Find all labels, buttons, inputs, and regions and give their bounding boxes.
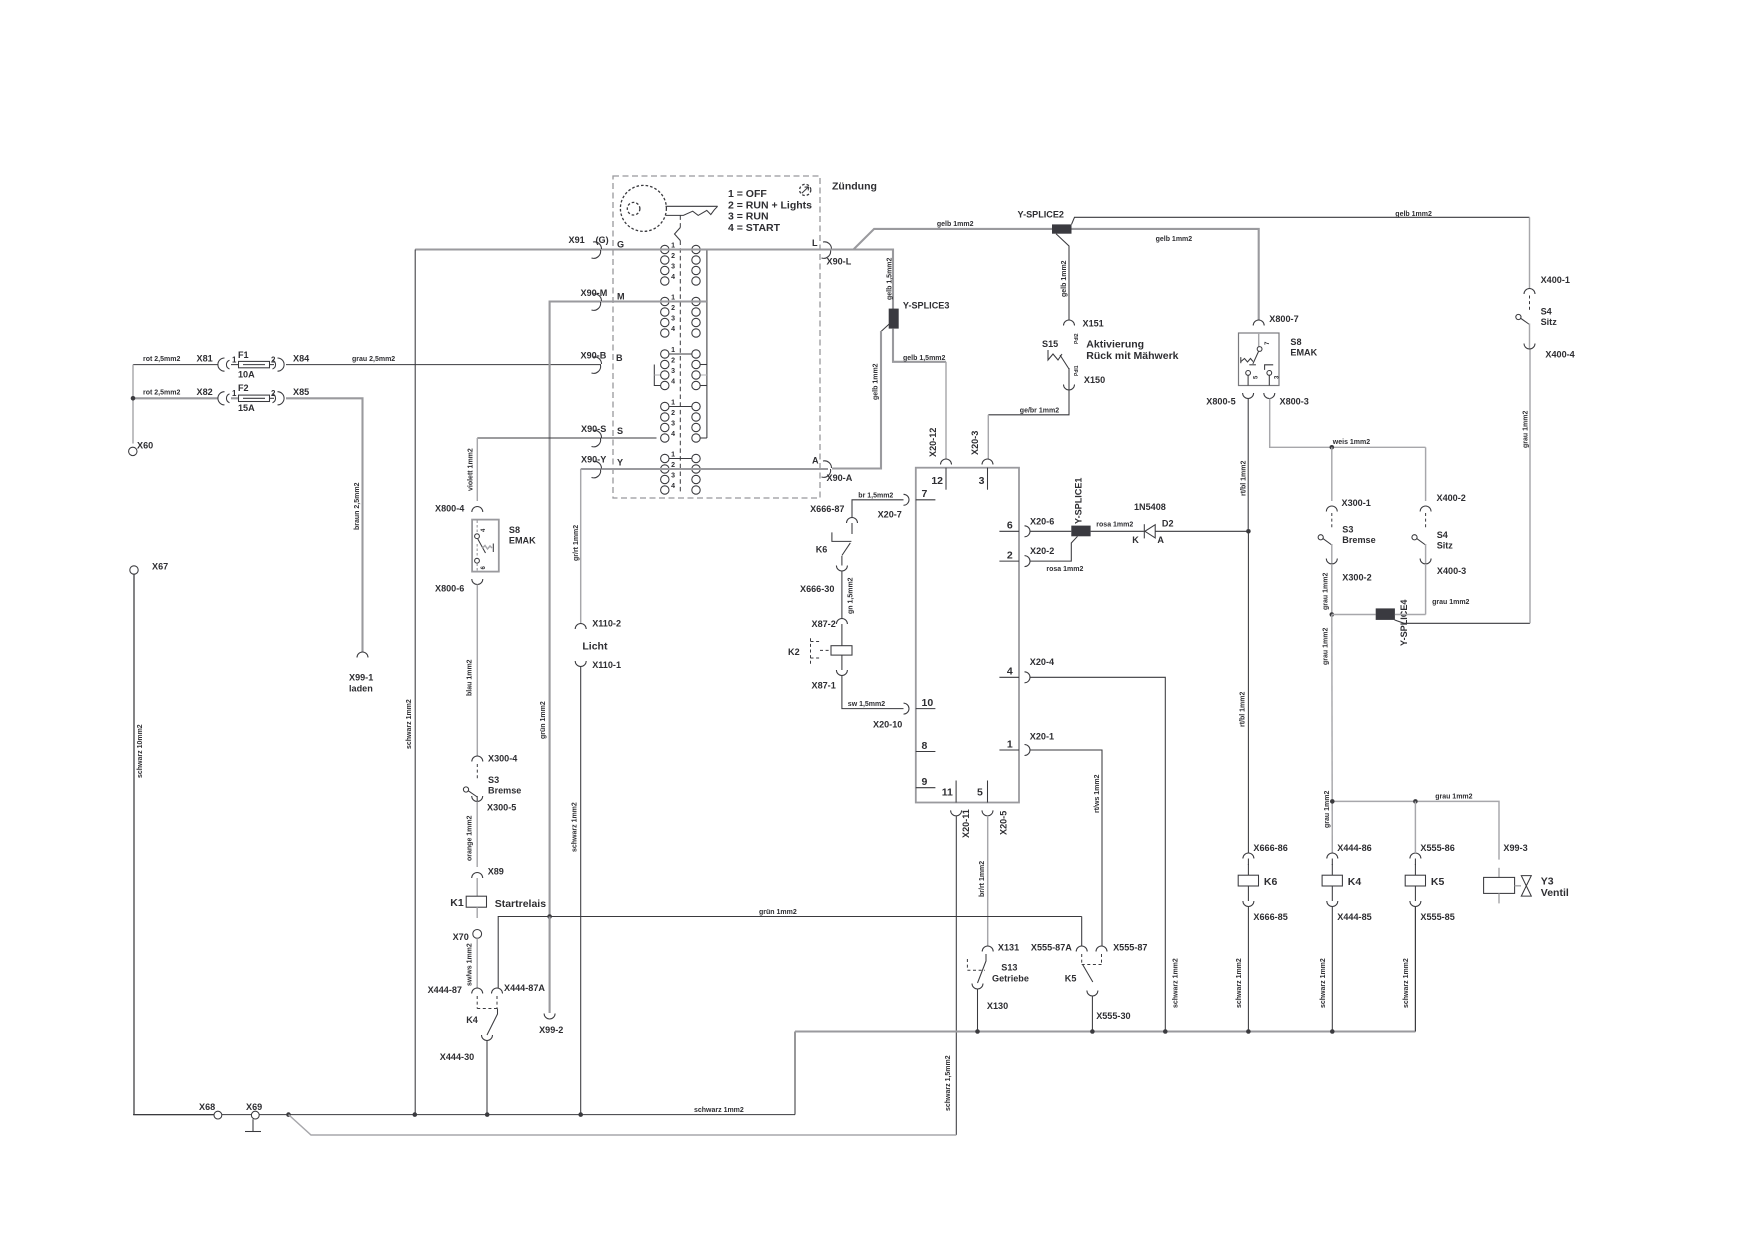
wire Y row <box>581 468 828 470</box>
wire braun 2,5mm2 to X99-1 <box>286 398 363 652</box>
svg-text:X20-11: X20-11 <box>961 809 971 838</box>
svg-text:rot 2,5mm2: rot 2,5mm2 <box>143 390 180 397</box>
connector X300-1 <box>1326 506 1337 512</box>
connector X99-1 laden <box>357 652 368 658</box>
pin 9 <box>916 787 936 789</box>
connector X90-Y <box>593 461 602 468</box>
svg-text:orange 1mm2: orange 1mm2 <box>467 815 474 861</box>
svg-text:4 = START: 4 = START <box>728 222 781 234</box>
svg-text:K: K <box>1132 535 1139 545</box>
svg-text:3: 3 <box>671 421 675 428</box>
svg-text:braun 2,5mm2: braun 2,5mm2 <box>354 482 361 530</box>
svg-text:Sitz: Sitz <box>1437 541 1454 551</box>
wire to X300-1 <box>1331 447 1333 501</box>
wire rosa 1mm2 (X20-2 to Y-SPLICE1) <box>1030 536 1078 561</box>
svg-text:9: 9 <box>922 776 928 788</box>
connector X400-1 <box>1524 289 1535 295</box>
svg-text:5: 5 <box>977 786 983 798</box>
svg-text:Sitz: Sitz <box>1541 317 1558 327</box>
wire schwarz 10mm2 (X67 to ground bus) <box>134 575 214 1115</box>
connector X400-2 <box>1420 506 1431 512</box>
diode D2 1N5408 <box>1143 524 1145 538</box>
connector X85 <box>278 392 285 405</box>
svg-text:X400-4: X400-4 <box>1545 350 1575 360</box>
svg-text:1N5408: 1N5408 <box>1134 502 1166 512</box>
wire X20-4 to bus (schwarz 1mm2) <box>1030 677 1165 1031</box>
junction <box>547 914 552 919</box>
svg-text:grün 1mm2: grün 1mm2 <box>540 701 547 739</box>
pin 4 <box>999 676 1019 678</box>
connector X90-L <box>823 242 832 249</box>
connector X90-S <box>593 430 602 437</box>
switch S4 Sitz (top right) <box>1529 296 1531 312</box>
ignition contact circles <box>661 245 669 253</box>
svg-text:schwarz 1mm2: schwarz 1mm2 <box>1403 958 1410 1008</box>
connector X150 <box>1064 385 1075 391</box>
svg-text:3: 3 <box>671 473 675 480</box>
switch S4 Sitz (right pair) <box>1425 513 1427 529</box>
svg-text:gelb 1mm2: gelb 1mm2 <box>1156 236 1193 243</box>
svg-text:grau 1mm2: grau 1mm2 <box>1323 573 1330 610</box>
svg-text:X555-87A: X555-87A <box>1031 942 1072 952</box>
ignition contact row links <box>669 353 692 355</box>
connector X666-86 <box>1243 853 1254 859</box>
wire S row to X800-4 chain <box>477 437 656 439</box>
wire grau 1mm2 relay feed <box>1332 801 1499 859</box>
connector X20-4 <box>1025 672 1031 683</box>
svg-text:schwarz 1mm2: schwarz 1mm2 <box>1236 958 1243 1008</box>
ignition switch Zündung dashed enclosure <box>613 176 820 498</box>
terminal X68 <box>222 1114 252 1116</box>
wire G row (X91 to X90-L) <box>415 248 828 250</box>
svg-text:K6: K6 <box>1264 876 1278 888</box>
svg-text:X300-4: X300-4 <box>488 754 518 764</box>
svg-text:X400-1: X400-1 <box>1541 275 1570 285</box>
svg-text:3 = RUN: 3 = RUN <box>728 211 769 223</box>
svg-text:weis 1mm2: weis 1mm2 <box>1332 439 1370 446</box>
svg-text:K2: K2 <box>788 647 800 657</box>
svg-text:X20-10: X20-10 <box>873 719 902 729</box>
wire br 1,5mm2 (X666-87 to X20-7) <box>852 500 904 518</box>
svg-text:2: 2 <box>1007 550 1013 562</box>
svg-text:X555-30: X555-30 <box>1096 1011 1130 1021</box>
wire schwarz 1mm2 (X666-85 to bus) <box>1247 907 1249 1032</box>
svg-text:violett 1mm2: violett 1mm2 <box>468 448 475 491</box>
svg-text:gelb 1,5mm2: gelb 1,5mm2 <box>886 257 893 300</box>
svg-text:X130: X130 <box>987 1001 1008 1011</box>
connector X110-1 <box>575 661 586 667</box>
wire X20-1 to X555-87 (rt/ws 1mm2) <box>1030 750 1102 946</box>
svg-text:X555-87: X555-87 <box>1113 942 1147 952</box>
svg-text:grau 1mm2: grau 1mm2 <box>1435 794 1472 801</box>
svg-text:X300-1: X300-1 <box>1342 498 1371 508</box>
wire rt/bl 1mm2 (X800-5 down to K6) <box>1247 399 1249 532</box>
svg-text:X91: X91 <box>569 235 585 245</box>
svg-text:X90-B: X90-B <box>581 351 607 361</box>
svg-text:K4: K4 <box>466 1015 479 1025</box>
connector X666-87 <box>847 518 858 524</box>
connector X300-5 <box>472 796 483 802</box>
wire gelb 1mm2 (branch to Y-SPLICE2) <box>854 229 1052 249</box>
svg-text:S8: S8 <box>509 525 520 535</box>
svg-text:X85: X85 <box>293 387 309 397</box>
splice Y-SPLICE4 <box>1332 614 1376 616</box>
pin 5 <box>987 781 989 803</box>
svg-text:1: 1 <box>1007 738 1013 750</box>
svg-text:S8: S8 <box>1290 337 1301 347</box>
svg-text:Ventil: Ventil <box>1541 887 1569 899</box>
ground bus continue <box>259 1114 795 1116</box>
key actuator dashed line <box>679 215 681 227</box>
connector X800-6 <box>472 579 483 585</box>
svg-text:8: 8 <box>922 740 928 752</box>
svg-text:X110-1: X110-1 <box>592 660 621 670</box>
svg-text:K1: K1 <box>450 897 464 909</box>
connector X444-87A <box>492 988 503 994</box>
wire gelb 1mm2 (Y-SPLICE2 to X400-1) <box>1072 217 1530 224</box>
svg-text:X110-2: X110-2 <box>592 619 621 629</box>
connector X300-2 <box>1326 559 1337 565</box>
splice Y-SPLICE2 <box>1052 224 1072 233</box>
switch box S8 EMAK (right) <box>1239 333 1280 386</box>
connector X800-5 <box>1243 393 1254 399</box>
wire M row <box>550 302 601 917</box>
svg-text:X666-87: X666-87 <box>810 504 844 514</box>
svg-text:X20-6: X20-6 <box>1030 517 1054 527</box>
svg-text:grau 1mm2: grau 1mm2 <box>1324 791 1331 828</box>
wire X444-30 to bus <box>486 1041 488 1115</box>
svg-text:10A: 10A <box>238 370 255 380</box>
svg-text:3: 3 <box>671 264 675 271</box>
svg-text:4: 4 <box>671 379 675 386</box>
svg-text:1: 1 <box>671 400 675 407</box>
solenoid Y3 Ventil <box>1498 868 1500 878</box>
connector X555-87 <box>1096 946 1107 952</box>
svg-text:gelb 1mm2: gelb 1mm2 <box>1061 260 1068 297</box>
svg-text:7: 7 <box>922 488 928 500</box>
svg-text:2 = RUN + Lights: 2 = RUN + Lights <box>728 199 812 211</box>
svg-text:Y: Y <box>617 458 623 468</box>
svg-text:X90-L: X90-L <box>827 257 852 267</box>
svg-text:X20-3: X20-3 <box>970 431 980 455</box>
svg-text:K6: K6 <box>816 544 828 554</box>
wire grau 1mm2 down to junction <box>1331 564 1333 615</box>
wire gelb 1,5mm2 (L to Y-SPLICE3) <box>828 250 893 310</box>
svg-text:grau 1mm2: grau 1mm2 <box>1432 599 1469 606</box>
svg-text:Pdl2: Pdl2 <box>1074 333 1080 344</box>
svg-text:2: 2 <box>671 305 675 312</box>
svg-text:X87-2: X87-2 <box>812 619 836 629</box>
connector X20-10 <box>904 703 910 714</box>
connector X81 <box>218 358 225 371</box>
svg-text:X89: X89 <box>488 867 504 877</box>
wire rot 2,5mm2 to fuse F1 <box>133 364 218 366</box>
svg-text:gelb 1mm2: gelb 1mm2 <box>937 221 974 228</box>
connector X20-11 <box>951 810 962 816</box>
svg-text:Pdl1: Pdl1 <box>1074 365 1080 376</box>
wire sw 1,5mm2 (X87-1 to X20-10) <box>842 676 904 709</box>
svg-text:schwarz 1mm2: schwarz 1mm2 <box>1320 958 1327 1008</box>
connector X555-87A <box>1076 946 1087 952</box>
svg-text:blau 1mm2: blau 1mm2 <box>467 659 474 696</box>
connector X555-86 <box>1410 853 1421 859</box>
wire grau 1mm2 (Y-SPLICE4 to top S4 Sitz) <box>1395 620 1531 623</box>
svg-text:4: 4 <box>671 326 675 333</box>
connector X131 <box>982 946 993 952</box>
svg-text:K5: K5 <box>1431 876 1445 888</box>
svg-text:grau 1mm2: grau 1mm2 <box>1323 628 1330 665</box>
connector X800-4 <box>472 507 483 513</box>
svg-text:X99-1: X99-1 <box>349 673 373 683</box>
junction <box>1246 529 1251 534</box>
svg-text:S3: S3 <box>1342 525 1353 535</box>
svg-text:X555-86: X555-86 <box>1420 843 1454 853</box>
svg-text:rot 2,5mm2: rot 2,5mm2 <box>143 356 180 363</box>
svg-text:B: B <box>616 353 623 363</box>
svg-text:sw/ws 1mm2: sw/ws 1mm2 <box>467 943 474 986</box>
svg-text:schwarz 1mm2: schwarz 1mm2 <box>406 699 413 749</box>
svg-text:Startrelais: Startrelais <box>495 898 547 910</box>
junction <box>1330 445 1335 450</box>
wire X20-6 to Y-SPLICE1 <box>1030 530 1071 532</box>
svg-text:X666-30: X666-30 <box>800 584 834 594</box>
relay contact K4 <box>476 996 478 1009</box>
connector X90-A <box>823 461 832 468</box>
relay coil K2 <box>831 646 852 655</box>
svg-text:grau 2,5mm2: grau 2,5mm2 <box>352 356 395 363</box>
svg-text:X800-4: X800-4 <box>435 504 465 514</box>
wire grün 1mm2 (X444-87A up to relay line) <box>498 917 1081 989</box>
svg-text:X800-6: X800-6 <box>435 584 464 594</box>
svg-text:X20-5: X20-5 <box>998 811 1008 835</box>
terminal X60 <box>129 447 137 455</box>
svg-text:X400-2: X400-2 <box>1437 493 1466 503</box>
svg-text:K4: K4 <box>1348 876 1362 888</box>
wire schwarz 1mm2 (X444-85 to bus) <box>1331 907 1333 1032</box>
wire X20-5 to X131 (br/rt 1mm2) <box>987 816 989 946</box>
pin 11 <box>955 781 957 803</box>
svg-text:schwarz 1,5mm2: schwarz 1,5mm2 <box>945 1055 952 1111</box>
connector X84 <box>278 358 285 371</box>
pin 12 <box>945 468 947 490</box>
connector X20-12 <box>941 459 952 464</box>
svg-text:X20-4: X20-4 <box>1030 657 1055 667</box>
connector X300-4 <box>472 756 483 762</box>
connector X400-4 <box>1524 344 1535 350</box>
connector X20-3 <box>982 459 993 464</box>
svg-text:(G): (G) <box>596 235 609 245</box>
connector X444-30 <box>482 1035 493 1041</box>
connector X444-85 <box>1327 901 1338 907</box>
switch S13 Getriebe <box>966 959 968 970</box>
svg-text:X444-87A: X444-87A <box>504 983 545 993</box>
svg-text:X300-2: X300-2 <box>1342 573 1371 583</box>
wire B branch <box>654 365 660 386</box>
wire schwarz 1mm2 left drop <box>414 250 416 1115</box>
svg-text:X67: X67 <box>152 562 168 572</box>
svg-text:X20-7: X20-7 <box>878 510 902 520</box>
svg-text:1: 1 <box>232 389 237 398</box>
svg-text:schwarz 1mm2: schwarz 1mm2 <box>1173 958 1180 1008</box>
svg-text:gn 1,5mm2: gn 1,5mm2 <box>848 577 855 614</box>
wire gr/rt 1mm2 (Y to Licht) <box>580 469 582 624</box>
svg-text:X444-87: X444-87 <box>428 985 462 995</box>
svg-text:S4: S4 <box>1541 307 1553 317</box>
connector X87-1 <box>836 670 847 676</box>
svg-text:rt/ws 1mm2: rt/ws 1mm2 <box>1094 774 1101 813</box>
svg-text:rt/bl 1mm2: rt/bl 1mm2 <box>1240 691 1247 727</box>
svg-text:D2: D2 <box>1162 519 1174 529</box>
terminal X69 with ground <box>251 1111 259 1119</box>
ignition internal bus wire <box>706 250 708 439</box>
wire S row4 to bus <box>700 437 707 439</box>
svg-text:10: 10 <box>922 697 934 709</box>
svg-text:rosa 1mm2: rosa 1mm2 <box>1046 566 1083 573</box>
svg-text:1: 1 <box>671 347 675 354</box>
svg-text:schwarz 1mm2: schwarz 1mm2 <box>572 802 579 852</box>
svg-text:1: 1 <box>671 452 675 459</box>
connector X444-87 <box>472 988 483 994</box>
svg-text:2: 2 <box>271 355 276 364</box>
wire X20-11 down <box>955 816 957 1135</box>
ground bus (schwarz) <box>133 1114 214 1116</box>
connector X444-86 <box>1327 853 1338 859</box>
svg-text:Licht: Licht <box>582 641 608 653</box>
svg-text:2: 2 <box>671 253 675 260</box>
svg-text:Y3: Y3 <box>1541 876 1554 888</box>
junction <box>1330 612 1335 617</box>
pin 6 <box>999 530 1019 532</box>
svg-text:S15: S15 <box>1042 339 1058 349</box>
wire blau 1mm2 <box>476 585 478 757</box>
svg-text:X99-3: X99-3 <box>1503 843 1527 853</box>
svg-text:X69: X69 <box>246 1102 262 1112</box>
svg-text:X70: X70 <box>453 932 469 942</box>
svg-text:X151: X151 <box>1083 319 1104 329</box>
svg-text:grün 1mm2: grün 1mm2 <box>759 909 797 916</box>
connector X666-30 <box>836 566 847 572</box>
svg-text:Rück mit Mähwerk: Rück mit Mähwerk <box>1086 350 1178 362</box>
wire gelb 1mm2 (Y-SPLICE2 to X800-7) <box>1072 229 1259 320</box>
key symbol <box>620 185 666 231</box>
wire schwarz 1,5mm2 lower gray line <box>289 1115 957 1135</box>
wire to X555-87A <box>1081 917 1083 947</box>
svg-text:F1: F1 <box>238 350 249 360</box>
svg-text:X90-A: X90-A <box>827 473 853 483</box>
svg-text:4: 4 <box>671 431 675 438</box>
wire gelb 1mm2 (Y-SPLICE3 to X90-A) <box>881 324 890 332</box>
pin 8 <box>916 751 936 753</box>
svg-text:X150: X150 <box>1084 375 1105 385</box>
svg-text:Y-SPLICE1: Y-SPLICE1 <box>1074 478 1084 525</box>
svg-text:X90-M: X90-M <box>581 288 608 298</box>
wire rot to fuse F2 <box>133 397 218 399</box>
svg-text:S13: S13 <box>1001 963 1017 973</box>
svg-text:S: S <box>617 426 623 436</box>
svg-text:br 1,5mm2: br 1,5mm2 <box>858 492 893 499</box>
svg-text:L: L <box>812 238 818 248</box>
svg-text:gelb 1mm2: gelb 1mm2 <box>1395 211 1432 218</box>
svg-text:Getriebe: Getriebe <box>992 973 1029 983</box>
svg-text:schwarz 1mm2: schwarz 1mm2 <box>694 1107 744 1114</box>
svg-text:X20-2: X20-2 <box>1030 546 1054 556</box>
connector X89 <box>472 873 483 879</box>
connector X90-B <box>593 357 602 364</box>
svg-text:X444-86: X444-86 <box>1337 843 1371 853</box>
svg-text:2: 2 <box>671 358 675 365</box>
svg-text:6: 6 <box>1007 520 1013 532</box>
svg-text:12: 12 <box>931 475 943 487</box>
svg-text:grau 1mm2: grau 1mm2 <box>1523 411 1530 448</box>
wire sw/ws 1mm2 <box>476 938 478 988</box>
connector X110-2 <box>575 624 586 630</box>
svg-text:X300-5: X300-5 <box>487 803 516 813</box>
svg-text:rt/bl 1mm2: rt/bl 1mm2 <box>1240 460 1247 496</box>
wire diode anode to rt/bl line <box>1155 530 1248 532</box>
svg-text:ge/br 1mm2: ge/br 1mm2 <box>1020 408 1059 415</box>
relay coil K6 <box>1238 875 1258 886</box>
svg-text:rosa 1mm2: rosa 1mm2 <box>1096 522 1133 529</box>
svg-text:K5: K5 <box>1065 973 1077 983</box>
wire gn 1,5mm2 <box>841 571 843 619</box>
connector X130 <box>972 984 983 990</box>
clock symbol <box>800 184 811 195</box>
relay coil K5 <box>1405 875 1425 886</box>
connector X555-85 <box>1410 901 1421 907</box>
svg-text:F2: F2 <box>238 383 249 393</box>
connector X555-30 <box>1087 991 1098 997</box>
svg-text:Bremse: Bremse <box>488 786 521 796</box>
wire / node X60 <box>132 365 134 444</box>
relay contact K6 <box>851 523 853 534</box>
wire riser to gray bus <box>794 1032 796 1115</box>
pin 2 <box>999 560 1019 562</box>
connector X91 (G) <box>593 242 602 249</box>
gray bus <box>795 1030 1415 1032</box>
controller box X20 <box>916 468 1019 803</box>
svg-text:gr/rt 1mm2: gr/rt 1mm2 <box>573 525 580 561</box>
svg-text:X444-30: X444-30 <box>440 1052 474 1062</box>
svg-text:X400-3: X400-3 <box>1437 566 1466 576</box>
svg-text:Zündung: Zündung <box>832 181 877 193</box>
svg-text:sw 1,5mm2: sw 1,5mm2 <box>848 701 885 708</box>
svg-text:4: 4 <box>671 483 675 490</box>
svg-text:X90-S: X90-S <box>581 424 606 434</box>
svg-text:X99-2: X99-2 <box>539 1025 563 1035</box>
connector X666-85 <box>1243 901 1254 907</box>
svg-text:11: 11 <box>942 786 953 798</box>
fuse F2 15A <box>239 395 270 401</box>
wire gelb 1mm2 (Y-SPLICE2 to S15 X151) <box>1056 234 1069 320</box>
wire schwarz 1mm2 (Licht to bus) <box>580 667 582 1115</box>
fuse F1 10A <box>239 361 270 367</box>
connector X82 <box>218 392 225 405</box>
svg-text:A: A <box>812 456 819 466</box>
svg-text:schwarz 10mm2: schwarz 10mm2 <box>137 724 144 778</box>
wire gelb 1,5mm2 (Y-SPLICE3 to X20-12) <box>893 329 946 362</box>
switch S3 Bremse (right) <box>1331 513 1333 529</box>
svg-text:X60: X60 <box>137 441 153 451</box>
svg-text:15A: 15A <box>238 403 255 413</box>
relay coil K4 <box>1322 875 1342 886</box>
connector X20-1 <box>1025 745 1031 756</box>
svg-text:X800-7: X800-7 <box>1269 314 1298 324</box>
terminal X67 <box>130 566 138 574</box>
svg-text:X20-12: X20-12 <box>928 428 938 457</box>
svg-text:X81: X81 <box>197 353 213 363</box>
wire to X400-2 <box>1425 447 1427 501</box>
svg-text:X800-3: X800-3 <box>1280 396 1309 406</box>
